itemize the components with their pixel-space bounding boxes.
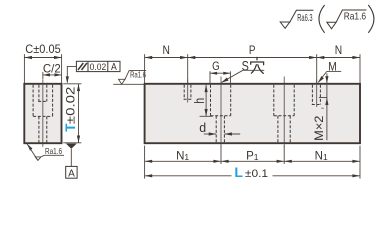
svg-text:Ra1.6: Ra1.6 xyxy=(344,11,367,23)
svg-text:L: L xyxy=(234,164,243,180)
tapped hole 1 hidden lines xyxy=(184,85,192,100)
side view body xyxy=(24,84,61,143)
side view centerline xyxy=(42,79,44,147)
svg-text:M×2: M×2 xyxy=(312,115,326,141)
svg-text:G: G xyxy=(212,59,220,73)
dimension G xyxy=(210,59,230,83)
svg-text:A: A xyxy=(68,168,75,179)
svg-text:0.02: 0.02 xyxy=(90,62,107,73)
front view body xyxy=(145,84,360,143)
svg-text:C/2: C/2 xyxy=(43,61,61,75)
label M xyxy=(318,59,341,82)
side view counterbore hidden lines xyxy=(33,85,53,117)
svg-text:N1: N1 xyxy=(315,150,328,162)
svg-text:±0.02: ±0.02 xyxy=(63,86,77,124)
side view tap hidden lines xyxy=(38,85,47,102)
label S穴 xyxy=(221,57,264,82)
svg-text:P: P xyxy=(249,43,256,57)
dimension T±0.02 xyxy=(63,84,82,143)
svg-text:A: A xyxy=(111,62,117,73)
tapped hole 4 hidden lines xyxy=(312,85,321,105)
svg-text:P1: P1 xyxy=(246,150,259,162)
svg-text:N: N xyxy=(163,43,170,57)
dimension L±0.1 xyxy=(145,146,360,181)
svg-text:h: h xyxy=(192,98,207,104)
svg-text:Ra6.3: Ra6.3 xyxy=(297,12,312,24)
surface finish (Ra1.6) in parentheses xyxy=(319,5,374,33)
parallelism feature control frame 0.02 A xyxy=(66,61,120,83)
hole 2 centerline xyxy=(220,77,222,147)
front view top edge extension xyxy=(113,83,144,85)
dimension C/2 xyxy=(43,61,62,79)
svg-text:Ra1.6: Ra1.6 xyxy=(45,146,62,156)
svg-text:,: , xyxy=(315,107,325,110)
svg-text:Ra1.6: Ra1.6 xyxy=(130,69,146,79)
dimension h xyxy=(192,85,212,117)
dimension C±0.05 xyxy=(24,42,61,84)
svg-text:N: N xyxy=(335,43,342,57)
surface finish Ra1.6 (front view top) xyxy=(119,69,147,84)
dimension d xyxy=(199,120,240,136)
svg-text:±0.1: ±0.1 xyxy=(245,168,268,180)
dimension N left / P / N right xyxy=(145,43,360,83)
hole 3 centerline xyxy=(283,77,285,147)
datum A symbol xyxy=(66,144,77,180)
svg-text:d: d xyxy=(199,120,206,135)
hole 1 centerline xyxy=(187,80,189,103)
surface finish Ra1.6 (side view bottom) xyxy=(27,144,64,161)
thread depth callout M×2 xyxy=(312,73,328,141)
svg-text:C±0.05: C±0.05 xyxy=(25,42,61,56)
counterbored hole 3 hidden lines xyxy=(274,85,294,143)
counterbored hole 2 hidden lines xyxy=(211,85,231,143)
surface finish Ra6.3 (general) xyxy=(280,10,313,28)
hole 4 centerline xyxy=(316,80,318,108)
side view through-hole hidden lines xyxy=(39,116,47,142)
svg-text:S: S xyxy=(242,58,249,74)
svg-text:N1: N1 xyxy=(176,150,189,162)
dimension N1 / P1 / N1 xyxy=(145,146,360,164)
